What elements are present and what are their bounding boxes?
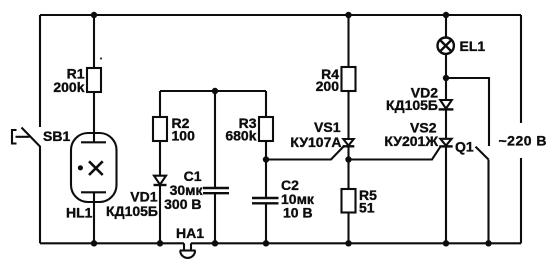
svg-text:100: 100 <box>172 127 196 143</box>
wire R5 to bottom <box>347 213 349 244</box>
wire R4 branch top <box>347 15 349 67</box>
node bottom VS2 <box>443 240 449 246</box>
wire R2 to VD1 <box>159 141 161 176</box>
wire HL1 to bottom <box>93 192 95 243</box>
svg-text:HA1: HA1 <box>176 225 204 241</box>
wire gate bus 1 to VS1 <box>266 147 344 160</box>
wire VD2 to VS2 <box>445 109 447 138</box>
label VS2 KU201Zh <box>384 120 438 150</box>
diode VD2 <box>439 100 454 109</box>
wire VD1 to bottom <box>159 185 161 243</box>
diode VD1 <box>154 176 167 185</box>
label R4 200 <box>316 66 340 94</box>
wire R1 to HL1 <box>93 92 95 142</box>
node gate tap C2 <box>263 156 269 162</box>
resistor R5 <box>342 189 356 213</box>
svg-text:300 В: 300 В <box>164 196 201 212</box>
svg-text:Q1: Q1 <box>455 139 474 155</box>
resistor R3 <box>259 117 273 141</box>
svg-text:200k: 200k <box>53 79 84 95</box>
node top bus EL1 <box>443 12 449 18</box>
wire Q1 to bottom <box>487 160 489 244</box>
wire EL1 top <box>445 15 447 38</box>
resistor R4 <box>342 67 356 91</box>
svg-text:VS1: VS1 <box>314 119 341 135</box>
svg-text:КД105Б: КД105Б <box>386 97 438 113</box>
sounder HA1 <box>180 243 196 258</box>
lamp EL1 <box>438 38 454 54</box>
wire C2 to bottom <box>265 203 267 243</box>
svg-text:HL1: HL1 <box>66 205 93 221</box>
wire right rail upper <box>520 15 522 123</box>
wire R1 branch top <box>93 15 95 68</box>
svg-text:51: 51 <box>359 200 375 216</box>
node Q1 branch tap <box>443 75 449 81</box>
svg-text:200: 200 <box>316 78 340 94</box>
svg-text:EL1: EL1 <box>460 38 486 54</box>
pushbutton SB1 <box>12 128 40 147</box>
wire bottom bus right <box>191 242 521 244</box>
wire gate bus 2 to VS2 <box>349 147 441 160</box>
node bottom Q1 <box>485 240 491 246</box>
wire left rail upper <box>39 15 41 127</box>
wire R3 branch top <box>265 91 267 117</box>
svg-text:КУ107А: КУ107А <box>290 134 341 150</box>
capacitor C2 <box>252 198 279 203</box>
wire VS1 cathode <box>347 146 349 189</box>
node bottom VD1 <box>157 240 163 246</box>
wire R2 branch top <box>159 91 161 117</box>
wire bottom bus left <box>40 242 184 244</box>
resistor R2 <box>153 117 167 141</box>
wire R2-R3 top bus <box>160 90 266 92</box>
node VS1 cathode junction <box>345 156 351 162</box>
wire left rail lower <box>39 146 41 243</box>
node top bus R1 <box>91 12 97 18</box>
svg-text:~220 В: ~220 В <box>499 132 548 148</box>
wire EL1 to VD2 <box>445 54 447 100</box>
svg-text:SB1: SB1 <box>43 128 70 144</box>
resistor R1 <box>87 68 101 92</box>
wire C1 branch top <box>214 91 216 188</box>
label VD1 KD105B <box>106 189 158 220</box>
wire R3 to C2 <box>265 141 267 198</box>
capacitor C1 <box>203 188 229 193</box>
label VS1 KU107A <box>290 119 341 150</box>
thyristor VS1 <box>343 139 355 146</box>
wire Q1 branch top <box>446 78 489 146</box>
label C2 10mk 10V <box>281 177 315 221</box>
label R3 680k <box>225 115 256 143</box>
label R1 200k <box>53 65 84 94</box>
label VD2 KD105B <box>386 85 438 114</box>
svg-text:КД105Б: КД105Б <box>106 203 158 219</box>
svg-text:КУ201Ж: КУ201Ж <box>384 133 438 149</box>
wire R4 to VS1 <box>347 91 349 139</box>
node top of C1 <box>212 88 218 94</box>
node bottom C1 <box>212 240 218 246</box>
label C1 30mk 300V <box>164 168 203 212</box>
svg-text:680k: 680k <box>225 127 256 143</box>
wire top bus <box>40 14 521 16</box>
label R2 100 <box>172 115 196 143</box>
wire C1 to bottom <box>214 193 216 243</box>
speck (scan artifact) <box>100 57 102 59</box>
neon lamp HL1 <box>71 133 117 202</box>
svg-text:10 В: 10 В <box>283 205 313 221</box>
node bottom C2 <box>263 240 269 246</box>
node top bus R4 <box>345 12 351 18</box>
label R5 51 <box>359 187 377 216</box>
wire VS2 to bottom <box>445 146 447 243</box>
node bottom R5 <box>345 240 351 246</box>
thyristor VS2 <box>439 139 452 147</box>
node bottom HL1 <box>91 240 97 246</box>
switch Q1 <box>476 147 489 160</box>
wire right rail lower <box>520 158 522 243</box>
